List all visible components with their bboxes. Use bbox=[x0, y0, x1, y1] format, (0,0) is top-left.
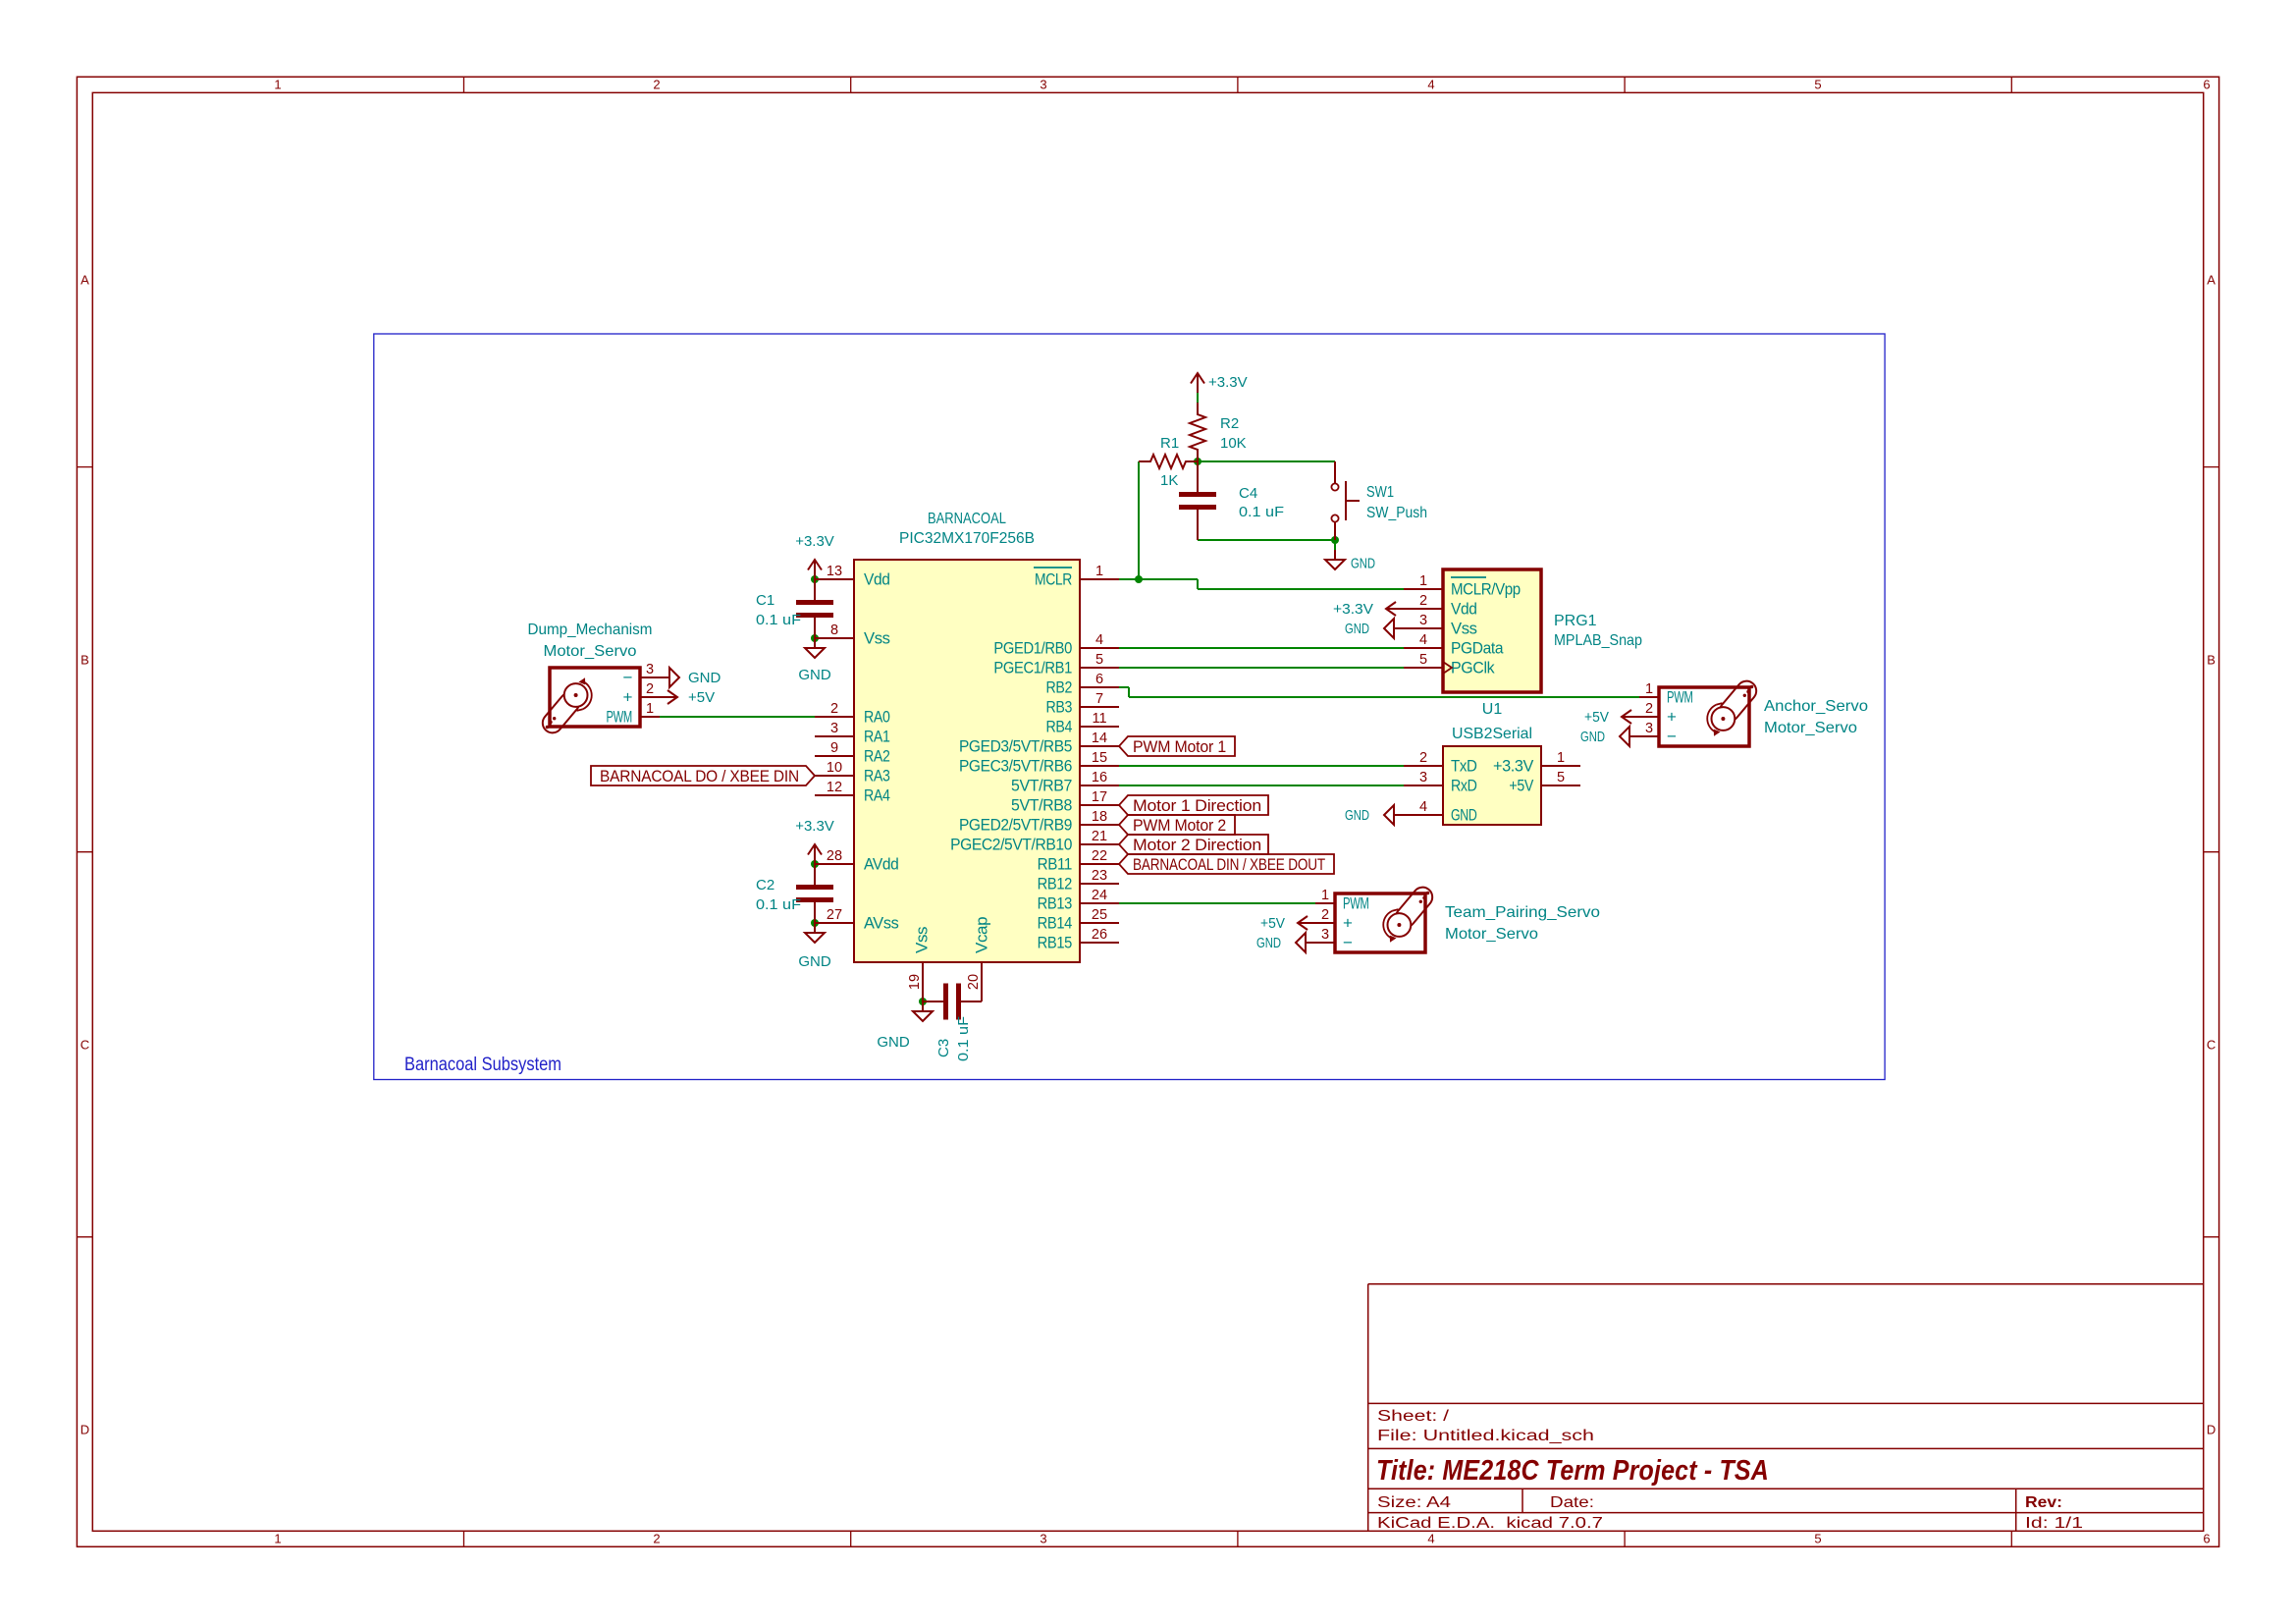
PIC32 pin 1 MCLR bbox=[1034, 564, 1119, 589]
svg-text:C2: C2 bbox=[756, 877, 774, 893]
svg-text:PWM: PWM bbox=[606, 708, 632, 727]
svg-text:RB2: RB2 bbox=[1045, 678, 1072, 697]
svg-text:16: 16 bbox=[1092, 770, 1107, 785]
svg-text:24: 24 bbox=[1092, 888, 1107, 903]
svg-text:A: A bbox=[2207, 273, 2216, 288]
wire RB2 jog down bbox=[1128, 687, 1130, 697]
ground GND at Team servo pin 3 bbox=[1256, 933, 1315, 952]
svg-text:RB12: RB12 bbox=[1038, 875, 1072, 893]
junction MCLR/R1 bbox=[1135, 575, 1143, 583]
svg-text:21: 21 bbox=[1092, 829, 1107, 844]
svg-text:RB13: RB13 bbox=[1038, 894, 1072, 913]
svg-text:Motor_Servo: Motor_Servo bbox=[1445, 926, 1538, 943]
svg-text:+3.3V: +3.3V bbox=[1493, 757, 1534, 776]
svg-text:PGEC2/5VT/RB10: PGEC2/5VT/RB10 bbox=[950, 836, 1072, 854]
PIC32 pin 14 PGED3/5VT/RB5 bbox=[959, 731, 1119, 756]
svg-text:D: D bbox=[2207, 1423, 2216, 1437]
svg-text:22: 22 bbox=[1092, 848, 1107, 864]
capacitor C1 bbox=[756, 579, 833, 638]
PIC32 pin 11 RB4 bbox=[1045, 711, 1119, 736]
PIC32 pin 3 RA1 bbox=[815, 721, 890, 746]
svg-text:5: 5 bbox=[1814, 1532, 1821, 1546]
svg-text:C: C bbox=[80, 1038, 89, 1053]
wire +3.3V to R2 bbox=[1197, 393, 1199, 403]
svg-text:Vdd: Vdd bbox=[864, 570, 890, 589]
svg-text:11: 11 bbox=[1092, 711, 1106, 727]
svg-text:C1: C1 bbox=[756, 592, 774, 609]
wire RB7 to U1 RxD bbox=[1119, 785, 1404, 786]
PIC32 pin 10 RA3 bbox=[815, 760, 890, 785]
svg-text:+: + bbox=[1343, 914, 1353, 933]
Team servo pin 2 + bbox=[1315, 907, 1353, 933]
svg-text:AVdd: AVdd bbox=[864, 855, 898, 874]
PIC32 pin 23 RB12 bbox=[1038, 868, 1119, 893]
svg-text:Motor_Servo: Motor_Servo bbox=[544, 643, 637, 660]
svg-text:3: 3 bbox=[830, 721, 838, 736]
svg-text:KiCad E.D.A. kicad 7.0.7: KiCad E.D.A. kicad 7.0.7 bbox=[1377, 1515, 1603, 1532]
ground GND at Dump servo pin 3 bbox=[660, 668, 721, 687]
svg-text:RB14: RB14 bbox=[1038, 914, 1072, 933]
wire RB2 stub bbox=[1119, 686, 1129, 688]
svg-text:4: 4 bbox=[1419, 632, 1427, 648]
svg-text:0.1 uF: 0.1 uF bbox=[1239, 504, 1284, 520]
junction Vss/C1/GND bbox=[811, 634, 819, 642]
svg-text:3: 3 bbox=[1040, 78, 1046, 92]
svg-text:GND: GND bbox=[688, 670, 721, 686]
svg-text:5: 5 bbox=[1419, 652, 1427, 668]
svg-text:C: C bbox=[2207, 1038, 2216, 1053]
wire RB2 to Anchor servo PWM bbox=[1129, 696, 1639, 698]
svg-text:PWM: PWM bbox=[1343, 894, 1369, 913]
PIC32 pin 9 RA2 bbox=[815, 740, 890, 766]
svg-text:Anchor_Servo: Anchor_Servo bbox=[1764, 698, 1868, 715]
svg-text:Sheet: /: Sheet: / bbox=[1377, 1408, 1450, 1425]
frame row labels A-D bbox=[80, 273, 2216, 1437]
svg-text:23: 23 bbox=[1092, 868, 1107, 884]
svg-text:2: 2 bbox=[653, 1532, 660, 1546]
wire SW1 bottom bbox=[1334, 522, 1336, 540]
svg-text:RB11: RB11 bbox=[1038, 855, 1072, 874]
svg-text:Title: ME218C Term Project - T: Title: ME218C Term Project - TSA bbox=[1376, 1455, 1769, 1487]
svg-text:PIC32MX170F256B: PIC32MX170F256B bbox=[899, 530, 1035, 547]
PIC32 pin 6 RB2 bbox=[1045, 672, 1119, 697]
Team servo pin 3 − bbox=[1315, 927, 1353, 952]
svg-text:GND: GND bbox=[1345, 807, 1369, 824]
svg-text:0.1 uF: 0.1 uF bbox=[756, 612, 801, 628]
junction R1/R2/C4/SW1 bbox=[1194, 458, 1201, 465]
svg-text:D: D bbox=[80, 1423, 89, 1437]
wire MCLR net horizontal from PIC pin 1 bbox=[1119, 578, 1198, 580]
svg-text:3: 3 bbox=[1040, 1532, 1046, 1546]
svg-text:3: 3 bbox=[646, 662, 654, 677]
svg-text:RA0: RA0 bbox=[864, 708, 890, 727]
svg-text:17: 17 bbox=[1092, 789, 1107, 805]
svg-text:Date:: Date: bbox=[1550, 1494, 1594, 1511]
frame column tick marks bbox=[464, 77, 2012, 1546]
svg-text:18: 18 bbox=[1092, 809, 1107, 825]
global label Motor 2 Direction bbox=[1119, 835, 1268, 854]
power +5V at Dump servo pin 2 bbox=[660, 689, 715, 706]
svg-text:R1: R1 bbox=[1160, 435, 1179, 452]
svg-text:20: 20 bbox=[966, 974, 982, 990]
U1 pin 2 TxD bbox=[1404, 750, 1477, 776]
svg-text:1: 1 bbox=[1321, 888, 1329, 903]
svg-text:File: Untitled.kicad_sch: File: Untitled.kicad_sch bbox=[1377, 1428, 1594, 1444]
PIC32 pin 22 RB11 bbox=[1038, 848, 1119, 874]
svg-text:GND: GND bbox=[1256, 935, 1281, 951]
svg-text:1: 1 bbox=[1419, 573, 1427, 589]
svg-text:−: − bbox=[1343, 934, 1353, 952]
PIC32 pin 8 Vss bbox=[815, 623, 890, 648]
svg-text:PGEC1/RB1: PGEC1/RB1 bbox=[993, 659, 1072, 677]
svg-text:Vss: Vss bbox=[913, 927, 932, 953]
svg-text:5: 5 bbox=[1814, 78, 1821, 92]
svg-text:C3: C3 bbox=[935, 1039, 952, 1057]
wire RB6 to U1 TxD bbox=[1119, 765, 1404, 767]
global label PWM Motor 1 bbox=[1119, 736, 1235, 756]
wire to GND at SW1 bbox=[1334, 540, 1336, 550]
svg-text:2: 2 bbox=[1645, 701, 1653, 717]
svg-text:BARNACOAL DO / XBEE DIN: BARNACOAL DO / XBEE DIN bbox=[600, 767, 799, 785]
svg-text:14: 14 bbox=[1092, 731, 1107, 746]
svg-text:+: + bbox=[1667, 708, 1677, 727]
ground GND at Anchor servo pin 3 bbox=[1580, 727, 1639, 746]
title block bbox=[1368, 1284, 2204, 1532]
svg-text:Vcap: Vcap bbox=[973, 917, 991, 953]
ground GND below pin 19 bbox=[877, 1001, 933, 1051]
capacitor C2 bbox=[756, 864, 833, 923]
svg-text:+3.3V: +3.3V bbox=[1208, 374, 1248, 391]
svg-text:5VT/RB7: 5VT/RB7 bbox=[1011, 777, 1072, 795]
Dump servo pin 1 PWM bbox=[606, 701, 660, 727]
svg-text:4: 4 bbox=[1095, 632, 1103, 648]
svg-text:GND: GND bbox=[1345, 621, 1369, 637]
frame row tick marks bbox=[77, 467, 2218, 1237]
svg-text:9: 9 bbox=[830, 740, 838, 756]
svg-text:6: 6 bbox=[2203, 1532, 2210, 1546]
wire SW1 top bbox=[1334, 461, 1336, 483]
resistor R2 bbox=[1190, 403, 1247, 461]
svg-text:4: 4 bbox=[1427, 78, 1434, 92]
svg-text:RA1: RA1 bbox=[864, 728, 890, 746]
svg-text:0.1 uF: 0.1 uF bbox=[955, 1016, 972, 1061]
power +5V at Anchor servo pin 2 bbox=[1584, 709, 1639, 726]
svg-text:5: 5 bbox=[1095, 652, 1103, 668]
svg-text:RB4: RB4 bbox=[1045, 718, 1072, 736]
svg-text:2: 2 bbox=[830, 701, 838, 717]
power +3.3V at PRG1 pin 2 bbox=[1333, 601, 1404, 618]
global label BARNACOAL DO / XBEE DIN at RA3 bbox=[591, 766, 815, 785]
U1 pin 1 +3.3V bbox=[1493, 750, 1580, 776]
PIC32 pin 27 AVss bbox=[815, 907, 898, 933]
capacitor C4 bbox=[1179, 461, 1284, 540]
Dump servo pin 3 − bbox=[622, 662, 660, 687]
svg-text:U1: U1 bbox=[1482, 701, 1503, 718]
svg-text:12: 12 bbox=[827, 780, 842, 795]
svg-text:PGClk: PGClk bbox=[1451, 659, 1495, 677]
svg-text:2: 2 bbox=[646, 681, 654, 697]
svg-text:0.1 uF: 0.1 uF bbox=[756, 896, 801, 913]
wire MCLR net jog down bbox=[1197, 579, 1199, 589]
svg-text:Vss: Vss bbox=[1451, 620, 1477, 638]
svg-text:GND: GND bbox=[798, 953, 831, 970]
PIC32 pin 28 AVdd bbox=[815, 848, 898, 874]
IC U1 USB2Serial body bbox=[1443, 746, 1541, 825]
junction SW1/C4/GND bbox=[1331, 536, 1339, 544]
Barnacoal Subsystem boundary box bbox=[374, 334, 1885, 1080]
svg-text:BARNACOAL DIN / XBEE DOUT: BARNACOAL DIN / XBEE DOUT bbox=[1133, 855, 1325, 874]
svg-text:PGData: PGData bbox=[1451, 639, 1504, 658]
svg-text:+3.3V: +3.3V bbox=[1333, 601, 1373, 618]
servo Team_Pairing_Servo Motor_Servo body bbox=[1335, 884, 1436, 952]
U1 pin 3 RxD bbox=[1404, 770, 1477, 795]
svg-text:3: 3 bbox=[1419, 613, 1427, 628]
svg-text:MPLAB_Snap: MPLAB_Snap bbox=[1554, 632, 1642, 649]
svg-text:PGEC3/5VT/RB6: PGEC3/5VT/RB6 bbox=[959, 757, 1072, 776]
svg-text:6: 6 bbox=[2203, 78, 2210, 92]
svg-text:3: 3 bbox=[1321, 927, 1329, 943]
svg-text:1: 1 bbox=[1557, 750, 1565, 766]
svg-text:+5V: +5V bbox=[1260, 915, 1285, 932]
svg-text:1: 1 bbox=[646, 701, 654, 717]
PIC32 pin 13 Vdd bbox=[815, 564, 890, 589]
PIC32 pin 18 PGED2/5VT/RB9 bbox=[959, 809, 1119, 835]
IC BARNACOAL PIC32MX170F256B body bbox=[854, 560, 1080, 962]
wire RB1 to PGClk bbox=[1119, 667, 1404, 669]
PIC32 pin 26 RB15 bbox=[1038, 927, 1119, 952]
PRG1 pin 2 Vdd bbox=[1404, 593, 1477, 619]
Anchor servo pin 2 + bbox=[1639, 701, 1677, 727]
servo Dump_Mechanism Motor_Servo body bbox=[539, 668, 640, 736]
svg-text:2: 2 bbox=[653, 78, 660, 92]
svg-text:Size: A4: Size: A4 bbox=[1377, 1494, 1451, 1511]
Team servo pin 1 PWM bbox=[1315, 888, 1369, 913]
PIC32 pin 21 PGEC2/5VT/RB10 bbox=[950, 829, 1119, 854]
PIC32 pin 17 5VT/RB8 bbox=[1011, 789, 1119, 815]
svg-text:13: 13 bbox=[827, 564, 842, 579]
svg-text:+: + bbox=[622, 688, 632, 707]
svg-text:3: 3 bbox=[1645, 721, 1653, 736]
svg-text:MCLR/Vpp: MCLR/Vpp bbox=[1451, 580, 1521, 599]
svg-text:+5V: +5V bbox=[1584, 709, 1609, 726]
PIC32 pin 19 Vss (bottom) bbox=[907, 927, 932, 1001]
resistor R1 bbox=[1139, 435, 1198, 489]
svg-text:RB3: RB3 bbox=[1045, 698, 1072, 717]
svg-text:5VT/RB8: 5VT/RB8 bbox=[1011, 796, 1072, 815]
ground GND at U1 pin 4 bbox=[1345, 805, 1404, 825]
PIC32 pin 2 RA0 bbox=[815, 701, 890, 727]
svg-text:+5V: +5V bbox=[688, 689, 715, 706]
PIC32 pin 24 RB13 bbox=[1038, 888, 1119, 913]
svg-text:4: 4 bbox=[1419, 799, 1427, 815]
svg-text:RA3: RA3 bbox=[864, 767, 890, 785]
svg-text:−: − bbox=[622, 669, 632, 687]
capacitor C3 bbox=[923, 962, 982, 1061]
svg-text:Team_Pairing_Servo: Team_Pairing_Servo bbox=[1445, 904, 1600, 921]
svg-text:AVss: AVss bbox=[864, 914, 898, 933]
wire MCLR net vertical to R1 bbox=[1138, 461, 1140, 579]
svg-text:6: 6 bbox=[1095, 672, 1103, 687]
PIC32 pin 25 RB14 bbox=[1038, 907, 1119, 933]
PRG1 pin 1 MCLR/Vpp bbox=[1404, 573, 1521, 599]
svg-text:1: 1 bbox=[1095, 564, 1103, 579]
svg-text:26: 26 bbox=[1092, 927, 1107, 943]
svg-text:Motor 1 Direction: Motor 1 Direction bbox=[1133, 796, 1261, 815]
svg-text:USB2Serial: USB2Serial bbox=[1452, 726, 1532, 742]
svg-text:−: − bbox=[1667, 728, 1677, 746]
svg-text:Vss: Vss bbox=[864, 629, 890, 648]
svg-text:Barnacoal Subsystem: Barnacoal Subsystem bbox=[404, 1055, 561, 1075]
power +5V at Team servo pin 2 bbox=[1260, 915, 1315, 932]
svg-text:Motor_Servo: Motor_Servo bbox=[1764, 720, 1857, 736]
svg-text:B: B bbox=[80, 653, 89, 668]
svg-text:Dump_Mechanism: Dump_Mechanism bbox=[528, 622, 653, 638]
svg-text:PRG1: PRG1 bbox=[1554, 613, 1597, 629]
servo Anchor_Servo Motor_Servo body bbox=[1659, 677, 1760, 746]
switch SW1 SW_Push bbox=[1331, 461, 1427, 540]
PIC32 pin 5 PGEC1/RB1 bbox=[993, 652, 1119, 677]
wire RB0 to PGData bbox=[1119, 647, 1404, 649]
power +3.3V above C1 bbox=[795, 533, 834, 579]
svg-text:A: A bbox=[80, 273, 89, 288]
svg-text:8: 8 bbox=[830, 623, 838, 638]
svg-text:27: 27 bbox=[827, 907, 842, 923]
power +3.3V above R2 bbox=[1191, 373, 1248, 393]
svg-text:Rev:: Rev: bbox=[2025, 1494, 2062, 1511]
Anchor servo pin 3 − bbox=[1639, 721, 1677, 746]
wire R2/R1 junction to SW1 bbox=[1198, 460, 1335, 462]
svg-text:19: 19 bbox=[907, 974, 923, 990]
svg-text:1: 1 bbox=[1645, 681, 1653, 697]
svg-text:B: B bbox=[2207, 653, 2216, 668]
ground GND at PRG1 pin 3 bbox=[1345, 619, 1404, 638]
PRG1 pin 3 Vss bbox=[1404, 613, 1477, 638]
svg-text:15: 15 bbox=[1092, 750, 1107, 766]
svg-text:2: 2 bbox=[1321, 907, 1329, 923]
wire Dump servo PWM to RA0 bbox=[660, 716, 815, 718]
wire RB13 to Team servo PWM bbox=[1119, 902, 1315, 904]
svg-text:R2: R2 bbox=[1220, 415, 1239, 432]
svg-text:GND: GND bbox=[877, 1034, 910, 1051]
svg-text:PWM Motor 2: PWM Motor 2 bbox=[1133, 816, 1226, 835]
junction Vdd/C1 bbox=[811, 575, 819, 583]
wire MCLR net to PRG1 pin 1 bbox=[1198, 588, 1404, 590]
svg-text:TxD: TxD bbox=[1451, 757, 1477, 776]
wire C4 bottom to SW1 bottom bbox=[1198, 539, 1335, 541]
svg-text:+3.3V: +3.3V bbox=[795, 818, 834, 835]
global label Motor 1 Direction bbox=[1119, 795, 1268, 815]
U1 pin 5 +5V bbox=[1509, 770, 1580, 795]
svg-text:PGED1/RB0: PGED1/RB0 bbox=[993, 639, 1072, 658]
global label BARNACOAL DIN / XBEE DOUT bbox=[1119, 854, 1334, 874]
Dump servo pin 2 + bbox=[622, 681, 660, 707]
PRG1 pin 4 PGData bbox=[1404, 632, 1504, 658]
svg-text:C4: C4 bbox=[1239, 485, 1257, 502]
svg-text:25: 25 bbox=[1092, 907, 1107, 923]
svg-text:MCLR: MCLR bbox=[1035, 570, 1072, 589]
svg-text:Id: 1/1: Id: 1/1 bbox=[2025, 1515, 2083, 1532]
frame column labels 1-6 bbox=[274, 78, 2210, 1546]
svg-text:GND: GND bbox=[1351, 556, 1375, 572]
PIC32 pin 16 5VT/RB7 bbox=[1011, 770, 1119, 795]
PRG1 pin 5 PGClk bbox=[1404, 652, 1495, 677]
svg-text:RxD: RxD bbox=[1451, 777, 1477, 795]
junction Vss19/C3/GND bbox=[919, 998, 927, 1005]
svg-text:PWM: PWM bbox=[1667, 688, 1693, 707]
junction AVss/C2/GND bbox=[811, 919, 819, 927]
svg-text:Motor 2 Direction: Motor 2 Direction bbox=[1133, 836, 1261, 854]
svg-text:28: 28 bbox=[827, 848, 842, 864]
U1 pin 4 GND bbox=[1404, 799, 1477, 825]
connector PRG1 MPLAB_Snap body bbox=[1443, 569, 1541, 692]
power +3.3V above C2 bbox=[795, 818, 834, 864]
svg-text:RA4: RA4 bbox=[864, 786, 890, 805]
PIC32 pin 12 RA4 bbox=[815, 780, 890, 805]
svg-text:SW_Push: SW_Push bbox=[1366, 505, 1427, 521]
ground GND below C1 bbox=[798, 638, 831, 683]
svg-text:PWM Motor 1: PWM Motor 1 bbox=[1133, 737, 1226, 756]
svg-text:10K: 10K bbox=[1220, 435, 1247, 452]
PIC32 pin 7 RB3 bbox=[1045, 691, 1119, 717]
svg-text:GND: GND bbox=[1580, 729, 1605, 745]
svg-text:1: 1 bbox=[274, 78, 281, 92]
PIC32 pin 15 PGEC3/5VT/RB6 bbox=[959, 750, 1119, 776]
svg-text:1K: 1K bbox=[1160, 472, 1178, 489]
svg-text:1: 1 bbox=[274, 1532, 281, 1546]
svg-text:RB15: RB15 bbox=[1038, 934, 1072, 952]
svg-text:+3.3V: +3.3V bbox=[795, 533, 834, 550]
ground GND below C2 bbox=[798, 923, 831, 970]
global label PWM Motor 2 bbox=[1119, 815, 1235, 835]
svg-text:PGED3/5VT/RB5: PGED3/5VT/RB5 bbox=[959, 737, 1072, 756]
svg-text:2: 2 bbox=[1419, 593, 1427, 609]
svg-text:BARNACOAL: BARNACOAL bbox=[928, 511, 1006, 527]
ground GND at SW1 bbox=[1325, 550, 1375, 572]
svg-text:GND: GND bbox=[1451, 806, 1477, 825]
svg-text:SW1: SW1 bbox=[1366, 484, 1394, 501]
svg-text:GND: GND bbox=[798, 667, 831, 683]
svg-text:Vdd: Vdd bbox=[1451, 600, 1477, 619]
svg-text:5: 5 bbox=[1557, 770, 1565, 785]
svg-text:3: 3 bbox=[1419, 770, 1427, 785]
PIC32 pin 4 PGED1/RB0 bbox=[993, 632, 1119, 658]
svg-text:2: 2 bbox=[1419, 750, 1427, 766]
svg-text:PGED2/5VT/RB9: PGED2/5VT/RB9 bbox=[959, 816, 1072, 835]
svg-text:4: 4 bbox=[1427, 1532, 1434, 1546]
svg-text:7: 7 bbox=[1095, 691, 1103, 707]
Anchor servo pin 1 PWM bbox=[1639, 681, 1693, 707]
PIC32 pin 20 Vcap (bottom) bbox=[966, 917, 991, 1001]
svg-text:10: 10 bbox=[827, 760, 842, 776]
svg-text:RA2: RA2 bbox=[864, 747, 890, 766]
svg-text:+5V: +5V bbox=[1509, 777, 1533, 795]
junction AVdd/C2 bbox=[811, 860, 819, 868]
